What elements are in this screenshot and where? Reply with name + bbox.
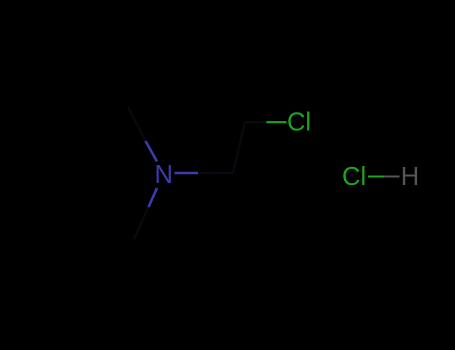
svg-text:N: N [154, 161, 172, 189]
bond CH2-CH2 (carbon-carbon, near-invisible) [233, 122, 245, 173]
HCl: bond Cl-H (chlorine half) [368, 176, 384, 178]
bond N-CH3 lower (carbon half, near-invisible) [134, 207, 149, 239]
bond N-CH3 upper (nitrogen half) [146, 141, 158, 162]
bond CH2-Cl (chlorine half) [266, 121, 286, 123]
bond CH2-Cl (carbon half, near-invisible) [245, 121, 266, 123]
svg-text:Cl: Cl [342, 163, 366, 191]
svg-text:H: H [401, 163, 419, 191]
bond N-CH3 upper (carbon half, near-invisible) [128, 107, 146, 141]
bond N-CH3 lower (nitrogen half) [149, 188, 158, 207]
bond N-CH2 (carbon half, near-invisible) [198, 172, 233, 175]
HCl: bond Cl-H (hydrogen half) [384, 176, 400, 178]
bond N-CH2 (nitrogen half) [175, 172, 199, 175]
svg-text:Cl: Cl [287, 109, 311, 137]
